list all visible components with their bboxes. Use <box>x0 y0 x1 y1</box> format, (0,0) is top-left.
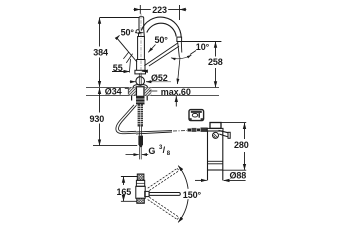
svg-text:384: 384 <box>93 48 108 58</box>
svg-text:280: 280 <box>234 140 249 150</box>
svg-text:930: 930 <box>90 114 105 124</box>
svg-text:55: 55 <box>113 63 123 73</box>
svg-text:50°: 50° <box>121 27 135 37</box>
svg-text:/: / <box>163 145 166 155</box>
svg-text:150°: 150° <box>183 190 202 200</box>
svg-text:max.60: max.60 <box>161 87 191 97</box>
svg-text:Ø34: Ø34 <box>105 86 122 96</box>
svg-text:Ø88: Ø88 <box>230 170 247 180</box>
svg-text:G: G <box>148 146 155 156</box>
svg-text:258: 258 <box>208 57 223 67</box>
svg-text:Ø52: Ø52 <box>151 73 168 83</box>
svg-text:50°: 50° <box>155 35 169 45</box>
svg-text:165: 165 <box>117 187 132 197</box>
svg-text:10°: 10° <box>196 42 210 52</box>
svg-text:223: 223 <box>152 5 167 15</box>
svg-text:8: 8 <box>167 151 171 157</box>
